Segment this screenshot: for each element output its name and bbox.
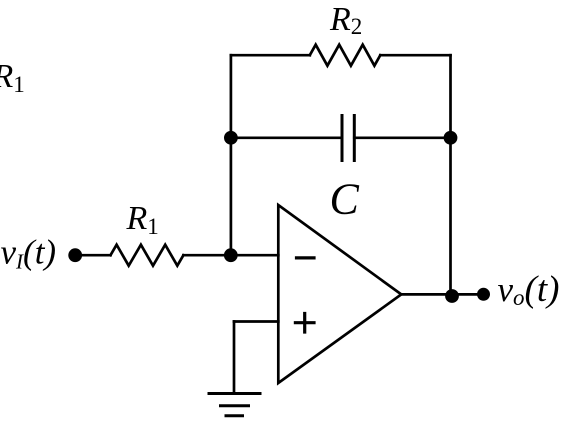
node: output junction dot bbox=[445, 289, 459, 303]
wire: ground stem vertical bbox=[233, 322, 236, 394]
capacitor C bbox=[342, 114, 354, 162]
wire: capacitor row left segment bbox=[231, 136, 342, 139]
wire: R1 to inverting junction node bbox=[183, 254, 230, 257]
wire: input terminal to R1 bbox=[75, 254, 110, 257]
svg-text:R1: R1 bbox=[0, 58, 25, 97]
wire: top feedback right segment bbox=[380, 54, 450, 57]
node: inverting input junction dot bbox=[224, 248, 238, 262]
svg-text:C: C bbox=[330, 175, 360, 224]
svg-text:vo(t): vo(t) bbox=[498, 269, 560, 310]
wire: non-inverting input to ground stem bbox=[234, 320, 278, 323]
resistor R2 bbox=[310, 45, 381, 66]
svg-text:vI(t): vI(t) bbox=[1, 233, 57, 274]
svg-text:R1: R1 bbox=[126, 200, 159, 239]
resistor R1 bbox=[111, 245, 184, 266]
wire: capacitor row right segment bbox=[354, 136, 450, 139]
op-amp minus input sign bbox=[295, 256, 316, 259]
ground bbox=[208, 394, 262, 416]
node: output terminal dot bbox=[477, 288, 490, 301]
wire: right vertical (top corner down to output node) bbox=[449, 55, 452, 294]
node: capacitor row left junction dot bbox=[224, 131, 238, 145]
node: input terminal dot bbox=[68, 248, 82, 262]
wire: left vertical (top feedback corner down to inverting node) bbox=[230, 55, 233, 255]
op-amp U1 bbox=[278, 205, 401, 383]
wire: inverting junction to op-amp minus input bbox=[231, 254, 278, 257]
svg-text:R2: R2 bbox=[329, 1, 362, 39]
node: capacitor row right junction dot bbox=[444, 131, 458, 145]
wire: op-amp output to terminal bbox=[401, 293, 483, 296]
wire: top feedback left segment bbox=[231, 54, 310, 57]
op-amp plus input sign bbox=[294, 312, 316, 334]
